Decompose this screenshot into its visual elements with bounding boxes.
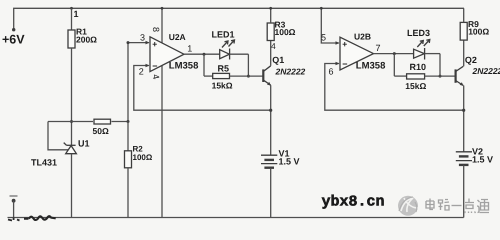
node junction dot 50ohm/R2 [127, 120, 130, 123]
svg-text:+: + [342, 39, 347, 49]
svg-text:+6V: +6V [2, 33, 25, 47]
node pin5 rail dot [320, 7, 323, 10]
wire R2 bottom to rail [127, 168, 129, 218]
wire R1 bottom to TL431 cathode [71, 48, 73, 145]
resistor 50ohm [94, 119, 111, 124]
watermark text dianlu yidiantong [426, 199, 489, 214]
svg-text:+: + [152, 39, 157, 49]
svg-text:Q2: Q2 [465, 55, 477, 65]
svg-text:1: 1 [187, 43, 192, 53]
watermark logo circle [398, 196, 418, 216]
battery V1 [261, 155, 277, 168]
wire pin5 column from rail [321, 8, 339, 43]
node +6V terminal dot [12, 28, 15, 31]
wire top +6V rail [14, 8, 464, 29]
node pin3 corner dot [127, 41, 130, 44]
node LED3 left column [393, 54, 395, 77]
wire Q2 collector up to R9 [463, 40, 465, 66]
svg-text:U2B: U2B [354, 32, 371, 42]
svg-text:8: 8 [151, 27, 161, 32]
wire 50ohm to R2 top [112, 121, 129, 123]
wire R3 top to rail [270, 8, 272, 23]
svg-text:1: 1 [74, 9, 79, 19]
svg-text:15kΩ: 15kΩ [405, 81, 426, 91]
svg-text:LM358: LM358 [169, 61, 199, 72]
wire R9 top to rail corner [463, 8, 465, 22]
svg-text:R5: R5 [218, 64, 230, 74]
wire pin2 feedback to V1 node [134, 66, 271, 111]
wire LED1 cathode to right column [230, 53, 249, 55]
svg-text:2N2222: 2N2222 [275, 66, 306, 76]
node R10 right junction dot [439, 75, 442, 78]
wire TL431 anode to ground rail [71, 154, 73, 218]
svg-text:ybx8.cn: ybx8.cn [322, 194, 385, 211]
wire V2 bottom to rail [463, 165, 465, 218]
svg-text:R10: R10 [410, 62, 427, 72]
resistor R5 [213, 73, 230, 78]
svg-text:1.5 V: 1.5 V [279, 157, 300, 167]
node feedback junction dot at V1+ [269, 109, 272, 112]
svg-text:5: 5 [321, 32, 326, 42]
ground terminal [8, 196, 20, 221]
svg-text:LM358: LM358 [356, 61, 386, 72]
pin2 arrowhead [146, 64, 150, 68]
wire pin6 feedback to V2 node [325, 64, 464, 111]
svg-text:15kΩ: 15kΩ [212, 81, 233, 91]
wire LED1 right column [247, 54, 249, 76]
svg-text:7: 7 [376, 43, 381, 53]
svg-text:−: − [342, 59, 347, 69]
svg-text:−: − [152, 61, 157, 71]
node R3 rail dot [269, 7, 272, 10]
resistor R9 [460, 22, 467, 40]
svg-text:4: 4 [271, 41, 276, 51]
svg-text:50Ω: 50Ω [93, 126, 109, 136]
pin6 arrowhead [336, 62, 340, 66]
node 1 junction dot on rail [70, 7, 73, 10]
svg-text:3: 3 [140, 32, 145, 42]
wire LED3 right column [439, 54, 441, 77]
wire V1 bottom to rail [270, 168, 272, 218]
wire TL431 ref loop [48, 122, 68, 150]
svg-text:TL431: TL431 [31, 158, 57, 168]
pin3 arrowhead [146, 41, 150, 45]
node LED1 left column [203, 54, 205, 76]
smeared GND text artifact [24, 216, 56, 220]
op-amp U2B [340, 37, 374, 70]
wire LED3 cathode to right column [425, 53, 440, 55]
transistor Q2 2N2222 [456, 66, 464, 86]
resistor R10 [407, 74, 425, 79]
wire R10 right lead to Q2 base [424, 75, 455, 77]
node LED3 left junction dot [393, 52, 396, 55]
node feedback junction dot at V2+ [462, 109, 465, 112]
wire pin3 column [128, 43, 149, 122]
wire pin4 to ground rail [161, 66, 163, 218]
wire pin8 to rail [161, 8, 163, 43]
wire bottom ground rail [8, 217, 464, 219]
wire U2A output [184, 53, 220, 55]
node R5 right junction dot [247, 75, 250, 78]
wire 50ohm row left [48, 121, 93, 123]
wire R5 right lead to Q1 base [230, 75, 263, 77]
svg-text:1.5 V: 1.5 V [472, 155, 493, 165]
resistor R2 [125, 151, 132, 168]
wire R1 top lead [71, 8, 73, 30]
svg-text:2N2222: 2N2222 [472, 66, 500, 76]
svg-text:LED1: LED1 [212, 30, 235, 40]
shunt regulator U1 TL431 [64, 143, 77, 154]
svg-text:6: 6 [329, 67, 334, 77]
wire Q1 emitter down to V1 [270, 85, 272, 155]
transistor Q1 2N2222 [263, 66, 271, 86]
svg-text:Q1: Q1 [272, 55, 284, 65]
wire R2 top lead [127, 122, 129, 151]
LED LED1 [220, 40, 235, 60]
wire R5 left lead [204, 75, 213, 77]
node LED1 left junction dot [203, 53, 206, 56]
node pin8 rail dot [161, 7, 164, 10]
wire Q2 emitter down to V2 [463, 86, 465, 152]
svg-text:2: 2 [139, 66, 144, 76]
svg-text:LED3: LED3 [407, 28, 430, 38]
wire R10 left lead [394, 75, 406, 77]
svg-text:U2A: U2A [169, 32, 186, 42]
wire U2B output [374, 53, 414, 55]
battery V2 [456, 152, 472, 165]
node junction dot R1/50ohm [70, 120, 73, 123]
svg-text:100Ω: 100Ω [133, 153, 153, 162]
pin5 arrowhead [336, 41, 340, 45]
LED LED3 [414, 40, 430, 60]
resistor R3 [267, 23, 274, 41]
resistor R1 [68, 30, 75, 48]
svg-text:200Ω: 200Ω [76, 35, 97, 45]
svg-text:U1: U1 [78, 139, 90, 149]
op-amp U2A [150, 37, 184, 72]
wire Q1 collector up to R3 [270, 41, 272, 66]
svg-text:100Ω: 100Ω [468, 26, 489, 36]
svg-text:100Ω: 100Ω [275, 27, 296, 37]
